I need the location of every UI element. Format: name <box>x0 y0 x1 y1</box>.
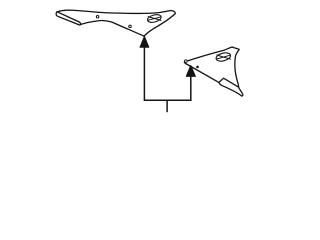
bracket part 2 (lower right) main outline <box>184 47 243 96</box>
bracket part 1 left end flange <box>56 12 80 25</box>
grommet ellipse on part 2 <box>215 51 231 62</box>
leader bracket line <box>144 47 190 101</box>
leader arrow 1 (points to part 1 vertex) <box>140 36 149 47</box>
small hole on part 2 <box>197 66 199 68</box>
bracket part 1 (upper left) main outline <box>57 10 175 36</box>
hole 1 on part 1 <box>96 16 99 19</box>
hole at left corner of part 2 <box>185 60 188 63</box>
leader center tick <box>166 100 168 112</box>
leader arrow 2 (points to part 2 corner) <box>186 66 195 77</box>
hole 2 on part 1 <box>129 25 132 28</box>
grommet cross on part 2 <box>217 55 231 59</box>
grommet ellipse on part 1 <box>147 13 162 23</box>
grommet cross on part 1 <box>148 17 161 21</box>
flange notch + fold line on part 2 <box>219 78 238 87</box>
